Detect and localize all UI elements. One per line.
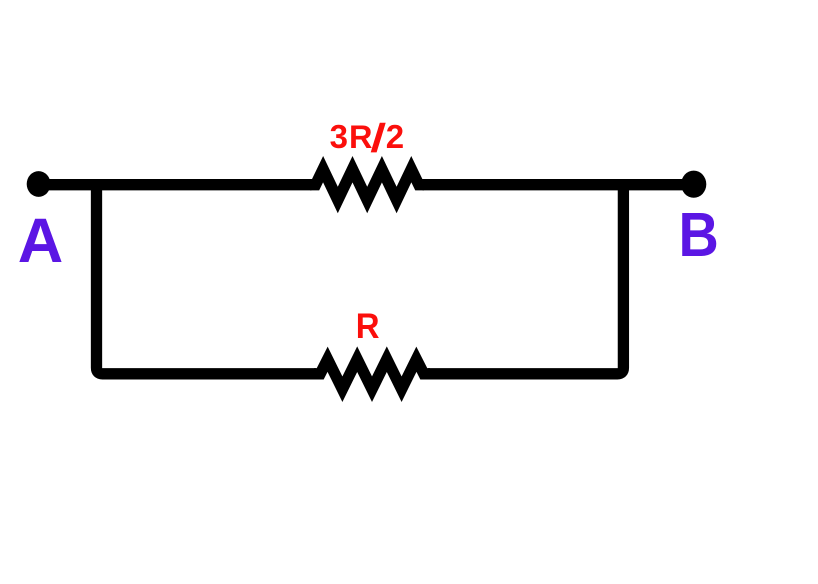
terminal dot at node A — [27, 171, 51, 197]
svg-text:A: A — [18, 206, 64, 276]
junction: top rail / left branch tee — [91, 179, 102, 190]
junction: top rail / right branch tee — [618, 179, 629, 190]
resistor R1 (3R/2), zigzag in top rail — [310, 169, 424, 200]
wire: top rail, resistor R1 right lead to node B — [423, 179, 694, 190]
svg-text:R: R — [349, 119, 372, 155]
wire: right branch, resistor R2 along bottom rail and up to top rail — [428, 185, 623, 374]
svg-text:R: R — [356, 306, 380, 346]
svg-text:B: B — [679, 201, 719, 270]
wire: left branch, top rail down and along bottom rail to resistor R2 — [97, 185, 317, 374]
svg-text:3: 3 — [330, 118, 348, 155]
wire: top rail, node A to resistor R1 left lead — [39, 179, 312, 190]
resistor R2 (R), zigzag in bottom rail — [314, 359, 430, 389]
terminal dot at node B — [681, 171, 706, 198]
svg-text:2: 2 — [386, 118, 404, 155]
